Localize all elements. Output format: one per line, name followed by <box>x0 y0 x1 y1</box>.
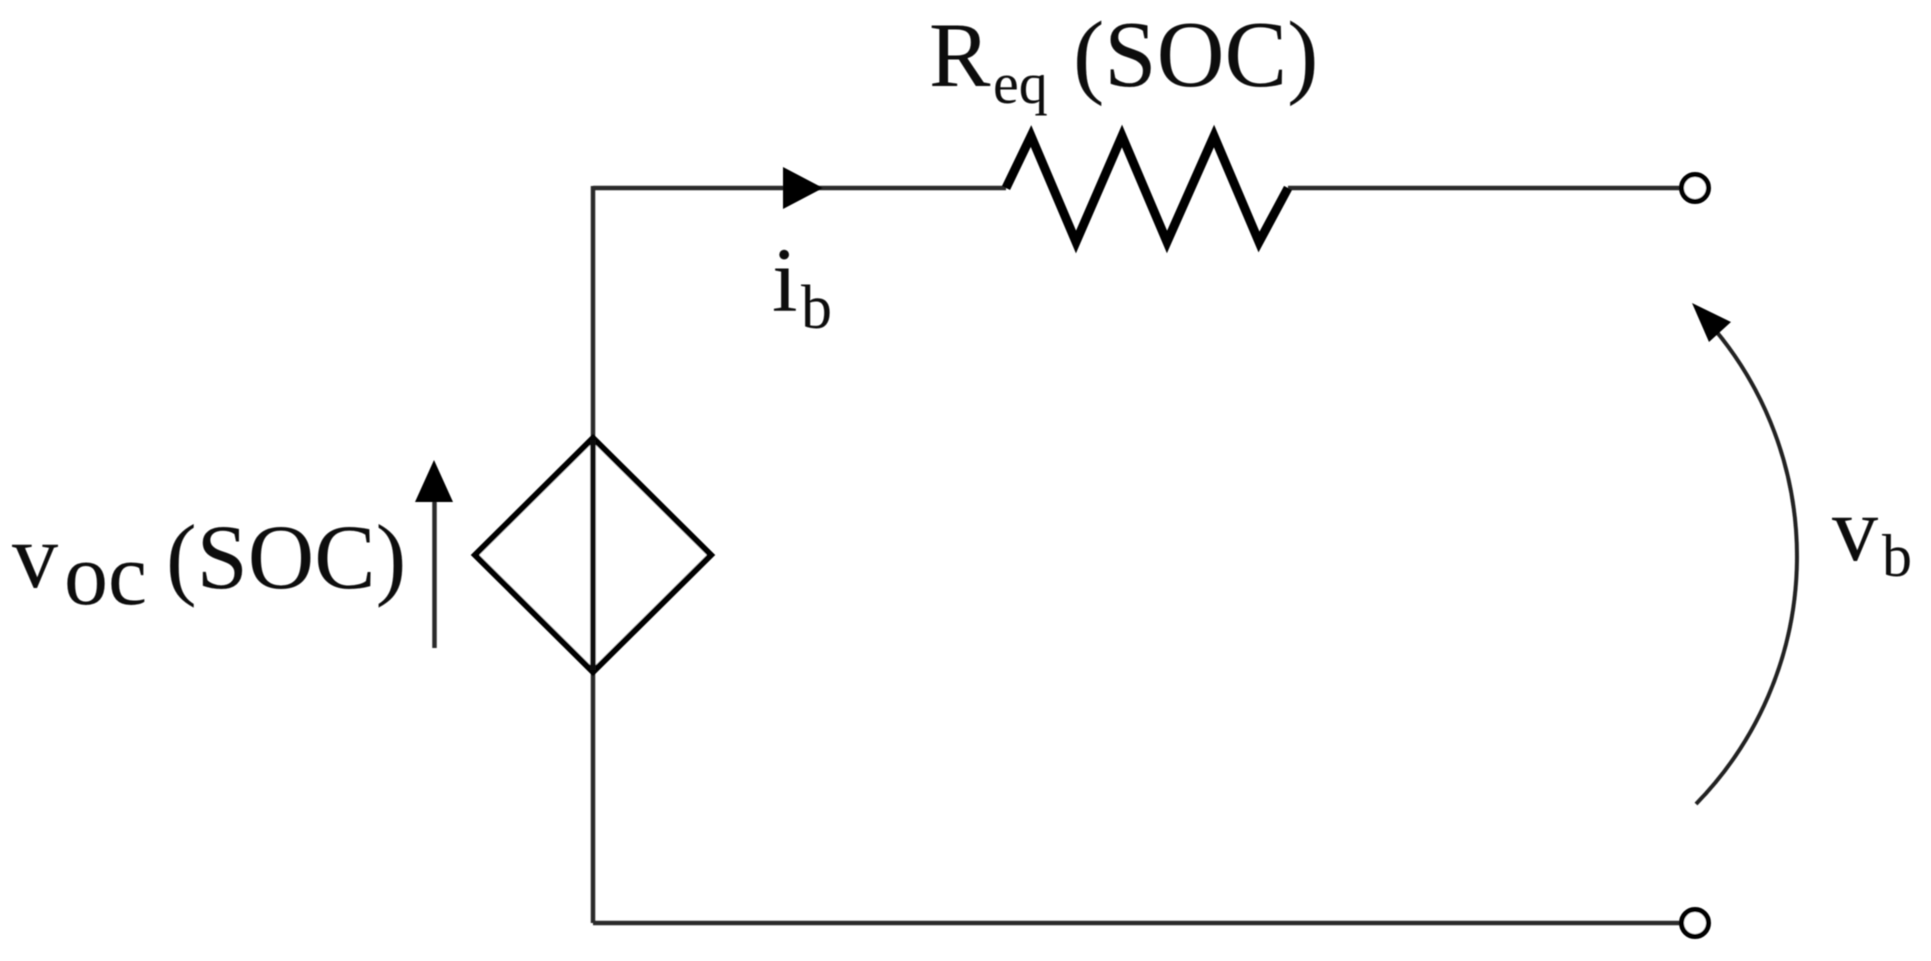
wire bottom horizontal <box>593 921 1681 926</box>
svg-text:eq: eq <box>993 51 1048 116</box>
vb curved arrow head <box>1692 303 1731 342</box>
svg-text:i: i <box>772 229 798 331</box>
current arrow ib on top wire <box>783 167 823 209</box>
dependent source U1 diamond <box>475 438 711 672</box>
voc polarity arrow shaft <box>432 500 437 648</box>
svg-text:v: v <box>12 505 58 607</box>
wire top horizontal right segment <box>1288 186 1681 191</box>
svg-text:b: b <box>801 274 832 342</box>
svg-text:b: b <box>1882 523 1912 589</box>
svg-text:(SOC): (SOC) <box>166 506 406 608</box>
svg-text:oc: oc <box>64 527 147 624</box>
vb curved arrow arc <box>1696 313 1797 804</box>
dependent source inner vertical bar <box>590 440 596 670</box>
resistor Req zigzag <box>1006 136 1288 242</box>
terminal node bottom circle <box>1682 910 1709 937</box>
svg-text:R: R <box>929 4 991 106</box>
terminal node top circle <box>1682 175 1709 202</box>
svg-text:v: v <box>1832 478 1878 580</box>
svg-text:(SOC): (SOC) <box>1073 3 1318 107</box>
voc polarity arrow head <box>415 460 453 502</box>
wire left vertical <box>591 186 596 923</box>
wire top horizontal left segment <box>593 186 1006 191</box>
